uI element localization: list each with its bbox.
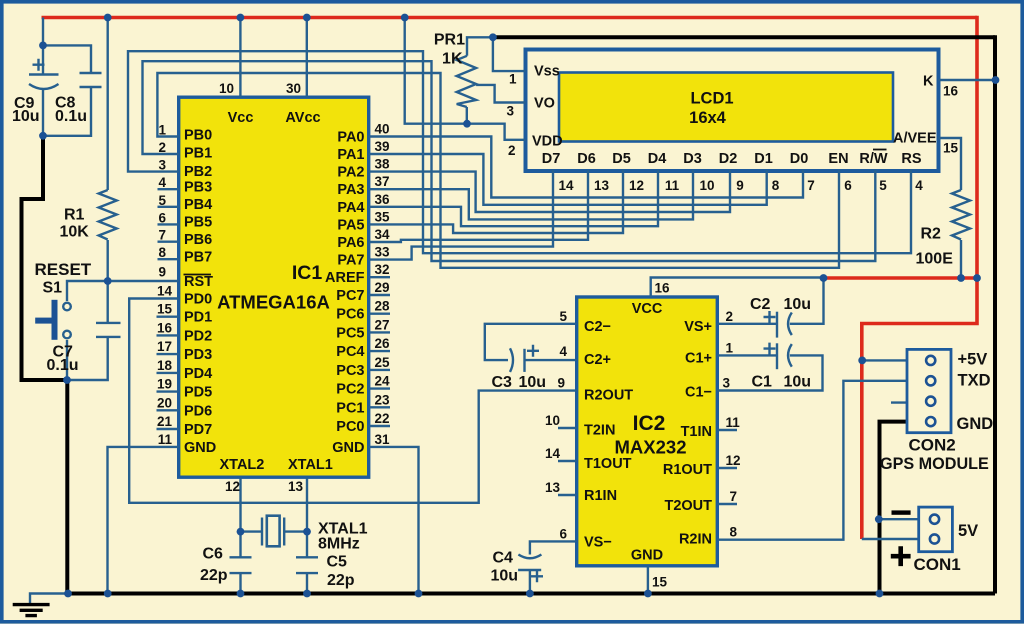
wire CON2 spare pin stub [891, 401, 908, 403]
wire IC1 pin28 stub [369, 313, 390, 315]
svg-text:PD2: PD2 [184, 328, 212, 344]
label C8 0.1u [55, 95, 87, 126]
svg-text:10u: 10u [784, 296, 812, 313]
wire ground black left column from C9 [22, 136, 68, 594]
label C4 10u [491, 550, 519, 585]
svg-text:12: 12 [629, 178, 644, 193]
capacitor C3 [510, 345, 539, 372]
svg-text:PD0: PD0 [184, 292, 212, 308]
svg-text:10u: 10u [519, 374, 547, 391]
svg-text:GND: GND [957, 415, 994, 433]
svg-text:15: 15 [652, 575, 668, 590]
wire MAX232 T2OUT stub [717, 503, 737, 505]
svg-text:10: 10 [219, 81, 234, 96]
svg-text:PB7: PB7 [184, 250, 212, 266]
svg-text:VO: VO [534, 96, 555, 112]
svg-text:40: 40 [375, 122, 390, 137]
MAX232 right pin numbers [723, 309, 741, 540]
svg-text:PA7: PA7 [337, 253, 364, 269]
label C6 22p [200, 546, 228, 585]
svg-text:XTAL1: XTAL1 [288, 457, 333, 473]
wire IC1 pin7 stub [158, 240, 179, 242]
wire ground black CON2 GND down [880, 422, 909, 594]
wire PR1 bottom lead [466, 107, 468, 124]
svg-text:38: 38 [375, 157, 391, 172]
svg-text:14: 14 [545, 446, 561, 461]
wire IC1 pin23 stub [369, 406, 390, 408]
svg-text:IC1: IC1 [292, 262, 323, 284]
wire IC1 pin6 stub [158, 223, 179, 225]
svg-text:10: 10 [699, 178, 714, 193]
svg-text:9: 9 [158, 265, 166, 280]
svg-text:31: 31 [375, 432, 391, 447]
capacitor C5 [296, 557, 318, 573]
svg-text:32: 32 [375, 262, 390, 277]
resistor R1 [99, 190, 117, 240]
wire ground black bottom rail [68, 592, 995, 596]
svg-text:8: 8 [730, 525, 738, 540]
wire PB0 to LCD EN [157, 73, 839, 268]
label PR1 1K [434, 32, 465, 68]
wire IC1 pin17 stub [157, 353, 179, 355]
svg-text:4: 4 [559, 344, 567, 359]
svg-text:C2: C2 [750, 296, 771, 313]
wire crystal right lead [285, 530, 308, 532]
svg-text:27: 27 [375, 317, 390, 332]
svg-text:PD6: PD6 [184, 403, 212, 419]
capacitor C4 [518, 555, 543, 583]
svg-text:D1: D1 [754, 151, 773, 167]
svg-text:8: 8 [158, 245, 166, 260]
svg-text:AVcc: AVcc [285, 110, 320, 126]
svg-text:PA0: PA0 [337, 130, 364, 146]
svg-text:VCC: VCC [632, 301, 663, 317]
capacitor C9 [29, 59, 59, 89]
svg-text:LCD1: LCD1 [690, 90, 733, 108]
wire PA5 to LCD D5 [369, 170, 623, 233]
svg-text:R1IN: R1IN [584, 488, 617, 504]
svg-text:6: 6 [844, 178, 852, 193]
svg-text:5: 5 [879, 178, 887, 193]
svg-text:Vcc: Vcc [228, 110, 254, 126]
svg-text:PR1: PR1 [434, 32, 465, 49]
wire ground black top from PR1 junction to right [493, 35, 995, 39]
svg-text:C1+: C1+ [685, 350, 712, 366]
wire C9 leads [42, 45, 44, 135]
svg-text:33: 33 [375, 245, 391, 260]
LCD1 body [526, 50, 939, 172]
svg-text:Vss: Vss [534, 64, 560, 80]
svg-text:R/W: R/W [859, 151, 888, 167]
wire LCD K to ground [939, 79, 996, 81]
wire CON2 +5V to red [862, 359, 908, 361]
label R1 10K [60, 207, 90, 241]
svg-text:CON1: CON1 [914, 555, 961, 574]
svg-text:34: 34 [375, 227, 391, 242]
wire PA4 to LCD D4 [369, 170, 658, 226]
svg-text:15: 15 [943, 141, 959, 156]
label C9 10u [12, 95, 40, 125]
svg-text:36: 36 [375, 192, 391, 207]
svg-text:10u: 10u [491, 568, 519, 585]
label R2 100E [916, 226, 954, 268]
svg-text:C1: C1 [752, 374, 773, 391]
svg-text:C2−: C2− [584, 319, 611, 335]
label RESET S1 [35, 260, 92, 297]
svg-text:10K: 10K [60, 224, 90, 241]
svg-text:R2IN: R2IN [679, 532, 712, 548]
svg-text:0.1u: 0.1u [47, 357, 79, 374]
svg-text:PA5: PA5 [337, 217, 364, 233]
IC1 ATMEGA16A body [179, 97, 369, 477]
wire R2 bottom to +5V [960, 240, 962, 278]
IC1 bottom pin labels [220, 457, 333, 494]
wire PA6 to LCD D6 [369, 170, 588, 242]
svg-text:13: 13 [594, 178, 610, 193]
wire MAX232 VS+ to C2 [717, 323, 776, 325]
wire PR1 wiper to LCD VO [476, 85, 525, 103]
svg-text:T2IN: T2IN [584, 423, 615, 439]
svg-text:6: 6 [158, 210, 166, 225]
svg-text:GND: GND [332, 440, 364, 456]
svg-text:PA2: PA2 [337, 165, 364, 181]
svg-text:13: 13 [545, 480, 561, 495]
svg-text:PD5: PD5 [184, 385, 212, 401]
CON1 minus sign [892, 510, 911, 514]
wire +5V red rail top [42, 16, 978, 20]
wire IC1 pin5 stub [158, 206, 179, 208]
wire CON1 plus to red [862, 538, 919, 540]
wire LCD A/VEE to R2 [939, 138, 962, 190]
svg-text:PB0: PB0 [184, 127, 212, 143]
MAX232 right pin names [663, 319, 712, 548]
svg-text:28: 28 [375, 299, 391, 314]
svg-text:7: 7 [807, 178, 815, 193]
resistor R2 [952, 190, 970, 240]
svg-text:C1−: C1− [685, 385, 712, 401]
svg-text:PB3: PB3 [184, 180, 212, 196]
wire PA2 to LCD D2 [369, 170, 730, 212]
wire C8 branch loop top [43, 45, 91, 73]
svg-text:14: 14 [157, 284, 173, 299]
svg-text:VDD: VDD [532, 133, 563, 149]
svg-text:IC2: IC2 [633, 412, 666, 435]
svg-text:R2OUT: R2OUT [584, 388, 633, 404]
label C2 10u [750, 296, 811, 313]
svg-text:22p: 22p [200, 567, 228, 584]
wire AVcc pin30 from rail [306, 18, 308, 98]
wire +5V red Z to CON1 [862, 278, 977, 539]
svg-text:3: 3 [158, 158, 166, 173]
svg-text:T2OUT: T2OUT [664, 498, 712, 514]
svg-text:37: 37 [375, 174, 390, 189]
svg-text:17: 17 [157, 339, 172, 354]
svg-text:16: 16 [943, 84, 959, 99]
svg-text:19: 19 [157, 377, 172, 392]
wire IC1 pin16 stub [157, 334, 179, 336]
wire +5V red horizontal to R2 junction [824, 276, 977, 280]
svg-text:D0: D0 [790, 151, 809, 167]
LCD1 inner display [559, 73, 893, 142]
wire C3 to MAX232 C2+ [525, 359, 577, 361]
svg-text:15: 15 [157, 302, 173, 317]
LCD1 R/W overline [873, 149, 887, 151]
LCD1 bottom pin names [542, 151, 922, 167]
svg-text:4: 4 [915, 178, 923, 193]
svg-text:8MHz: 8MHz [318, 536, 360, 553]
wire IC1 pin19 stub [157, 390, 179, 392]
svg-text:8: 8 [772, 178, 780, 193]
wire IC1 pin29 stub [369, 294, 390, 296]
svg-text:PA6: PA6 [337, 235, 364, 251]
IC1 left pin numbers [157, 123, 173, 447]
svg-text:PC6: PC6 [336, 307, 364, 323]
wire MAX232 T1OUT stub [558, 460, 577, 462]
svg-text:C6: C6 [203, 546, 224, 563]
IC1 name labels [217, 262, 330, 313]
IC1 top pin labels [219, 81, 321, 126]
svg-text:1K: 1K [442, 51, 463, 68]
svg-text:GND: GND [184, 440, 216, 456]
svg-text:PC2: PC2 [336, 382, 364, 398]
IC1 right pin numbers [375, 122, 391, 447]
svg-text:20: 20 [157, 395, 172, 410]
potentiometer PR1 [457, 56, 476, 107]
svg-text:CON2: CON2 [909, 436, 956, 455]
svg-text:9: 9 [736, 178, 744, 193]
capacitor C7 [96, 323, 121, 337]
svg-text:PD4: PD4 [184, 366, 212, 382]
svg-text:MAX232: MAX232 [615, 437, 687, 458]
wire C4 bottom to rail [529, 570, 531, 594]
svg-text:C3: C3 [492, 374, 513, 391]
crystal XTAL1 [262, 516, 284, 547]
wire Vcc pin10 from rail [239, 18, 241, 98]
svg-text:1: 1 [726, 340, 734, 355]
svg-text:S1: S1 [43, 280, 63, 297]
wire PA0 to LCD D0 [369, 137, 803, 198]
svg-text:6: 6 [559, 526, 567, 541]
wire PD0 to MAX232 R2OUT [129, 299, 577, 503]
svg-text:0.1u: 0.1u [55, 108, 87, 125]
svg-text:RS: RS [901, 151, 921, 167]
LCD1 bottom pin numbers [558, 178, 923, 193]
wire crystal left lead [241, 530, 262, 532]
svg-text:R1: R1 [64, 207, 85, 224]
svg-text:2: 2 [726, 309, 734, 324]
svg-text:PC3: PC3 [336, 363, 364, 379]
wire R1 top lead from rail [106, 18, 108, 191]
wire IC1 pin21 stub [157, 428, 179, 430]
wire PB2 to LCD RS [128, 51, 911, 253]
wire C6 leads [239, 532, 241, 594]
svg-text:GPS MODULE: GPS MODULE [880, 455, 989, 473]
svg-text:22p: 22p [327, 572, 355, 589]
svg-text:7: 7 [158, 228, 166, 243]
svg-text:100E: 100E [916, 250, 954, 267]
svg-text:25: 25 [375, 355, 391, 370]
MAX232 name labels [615, 412, 687, 458]
svg-text:29: 29 [375, 280, 390, 295]
svg-text:11: 11 [665, 178, 680, 193]
wire MAX232 VS- to C4 [530, 541, 577, 554]
svg-text:7: 7 [730, 489, 738, 504]
svg-text:PC7: PC7 [336, 288, 364, 304]
svg-text:RST: RST [184, 274, 213, 290]
wire VDD supply from rail to PR1 bottom [405, 18, 467, 124]
svg-text:+5V: +5V [958, 351, 988, 369]
svg-text:PC5: PC5 [336, 325, 364, 341]
ground symbol [13, 594, 68, 616]
svg-text:5: 5 [158, 193, 166, 208]
wire IC1 pin15 stub [157, 316, 179, 318]
svg-text:3: 3 [723, 376, 731, 391]
wire IC1 pin25 stub [369, 369, 390, 371]
svg-text:K: K [923, 74, 934, 90]
wire IC1 pin8 stub [158, 258, 179, 260]
wire PA7 to LCD D7 [369, 170, 553, 260]
svg-text:22: 22 [375, 411, 390, 426]
capacitor C8 [80, 73, 102, 87]
wire IC1 XTAL2 pin12 [239, 477, 241, 531]
svg-text:PB4: PB4 [184, 197, 212, 213]
wire IC1 AREF stub [369, 276, 390, 278]
IC1 right pin names [325, 130, 365, 456]
wire PA1 to LCD D1 [369, 154, 767, 205]
wire MAX232 R1OUT stub [717, 467, 737, 469]
svg-text:16x4: 16x4 [689, 109, 727, 127]
capacitor C6 [230, 557, 252, 573]
svg-text:D3: D3 [683, 151, 702, 167]
svg-text:9: 9 [557, 376, 565, 391]
svg-text:39: 39 [375, 139, 390, 154]
svg-text:1: 1 [509, 72, 517, 87]
capacitor C2 [764, 311, 792, 338]
svg-text:16: 16 [157, 320, 173, 335]
wire RST node to S1 [67, 281, 108, 301]
CON1 plus sign [891, 546, 911, 566]
label C7 0.1u [47, 344, 79, 375]
svg-text:R1OUT: R1OUT [663, 462, 712, 478]
wire C7 bottom lead to ground node [67, 337, 108, 380]
svg-text:12: 12 [225, 479, 240, 494]
wire C7 top lead [106, 281, 108, 323]
wire PB1 to LCD R/W [143, 61, 876, 261]
svg-text:18: 18 [157, 358, 173, 373]
wire C2 to +5V node [790, 278, 824, 324]
wire MAX232 C1+ to C1 [717, 354, 776, 356]
svg-text:5V: 5V [958, 522, 978, 540]
svg-text:A/VEE: A/VEE [893, 131, 937, 147]
svg-text:24: 24 [375, 374, 391, 389]
svg-text:21: 21 [157, 414, 173, 429]
svg-text:PD7: PD7 [184, 422, 212, 438]
svg-text:14: 14 [558, 178, 574, 193]
label C3 10u [492, 374, 547, 391]
wire MAX232 VCC pin16 to +5V [651, 278, 824, 298]
svg-text:PB6: PB6 [184, 232, 212, 248]
svg-text:11: 11 [158, 432, 173, 447]
wire MAX232 T1IN stub [717, 429, 737, 431]
MAX232 left pin numbers [545, 309, 568, 542]
wire C8 branch loop bottom [43, 87, 91, 136]
wire PR1 bottom to LCD VDD [467, 124, 526, 140]
IC1 left pin names [184, 127, 216, 456]
svg-text:PA4: PA4 [337, 200, 364, 216]
svg-text:35: 35 [375, 209, 391, 224]
svg-text:11: 11 [726, 415, 741, 430]
IC2 MAX232 body [577, 297, 718, 566]
svg-text:D5: D5 [612, 151, 631, 167]
svg-text:D7: D7 [542, 151, 561, 167]
svg-text:D4: D4 [648, 151, 667, 167]
wire C9 top from rail [42, 18, 44, 46]
svg-text:C5: C5 [327, 554, 348, 571]
svg-text:13: 13 [288, 479, 304, 494]
svg-text:2: 2 [158, 140, 166, 155]
wire C1 to C1- loop [717, 355, 822, 390]
wire +5V red right drop [975, 16, 979, 278]
svg-text:TXD: TXD [958, 372, 991, 390]
wire IC1 pin22 stub [369, 425, 390, 427]
svg-text:1: 1 [158, 123, 166, 138]
wire MAX232 R2IN to CON2 TXD [717, 381, 908, 540]
svg-text:10u: 10u [12, 108, 40, 125]
capacitor C1 [764, 343, 792, 370]
svg-text:D2: D2 [719, 151, 738, 167]
svg-text:ATMEGA16A: ATMEGA16A [217, 292, 330, 313]
wire IC1 pin18 stub [157, 372, 179, 374]
svg-text:AREF: AREF [325, 270, 365, 286]
svg-text:GND: GND [631, 548, 663, 564]
IC1 RST overline [184, 274, 212, 276]
svg-text:5: 5 [559, 309, 567, 324]
label C5 22p [327, 554, 355, 590]
svg-text:PD1: PD1 [184, 310, 212, 326]
svg-text:PD3: PD3 [184, 347, 212, 363]
svg-text:R2: R2 [921, 226, 942, 243]
connector CON2 [907, 349, 951, 432]
svg-text:C4: C4 [493, 550, 514, 567]
svg-text:T1OUT: T1OUT [584, 456, 632, 472]
svg-text:23: 23 [375, 392, 391, 407]
wire MAX232 R1IN stub [558, 494, 577, 496]
label XTAL1 8MHz [318, 521, 368, 553]
wire S1 bottom to ground node [66, 340, 68, 380]
CON1 labels [914, 522, 979, 574]
wire IC1 GND pin11 to rail [108, 447, 179, 594]
svg-text:VS−: VS− [584, 534, 612, 550]
svg-text:PC1: PC1 [336, 400, 364, 416]
svg-text:PA1: PA1 [337, 147, 364, 163]
connector CON1 [919, 507, 953, 552]
wire CON1 minus to black [879, 518, 919, 520]
svg-text:C2+: C2+ [584, 352, 611, 368]
svg-text:30: 30 [286, 81, 301, 96]
svg-text:PA3: PA3 [337, 182, 364, 198]
svg-text:PB2: PB2 [184, 164, 212, 180]
svg-text:PB1: PB1 [184, 145, 212, 161]
LCD1 labels [507, 64, 959, 159]
wire PA3 to LCD D3 [369, 170, 693, 220]
wire IC1 GND pin31 to rail [369, 447, 419, 594]
svg-text:PB5: PB5 [184, 215, 212, 231]
wire ground black right drop [993, 35, 997, 593]
svg-text:26: 26 [375, 336, 391, 351]
svg-text:XTAL2: XTAL2 [220, 457, 265, 473]
svg-text:VS+: VS+ [684, 319, 712, 335]
wire C5 leads [306, 532, 308, 594]
